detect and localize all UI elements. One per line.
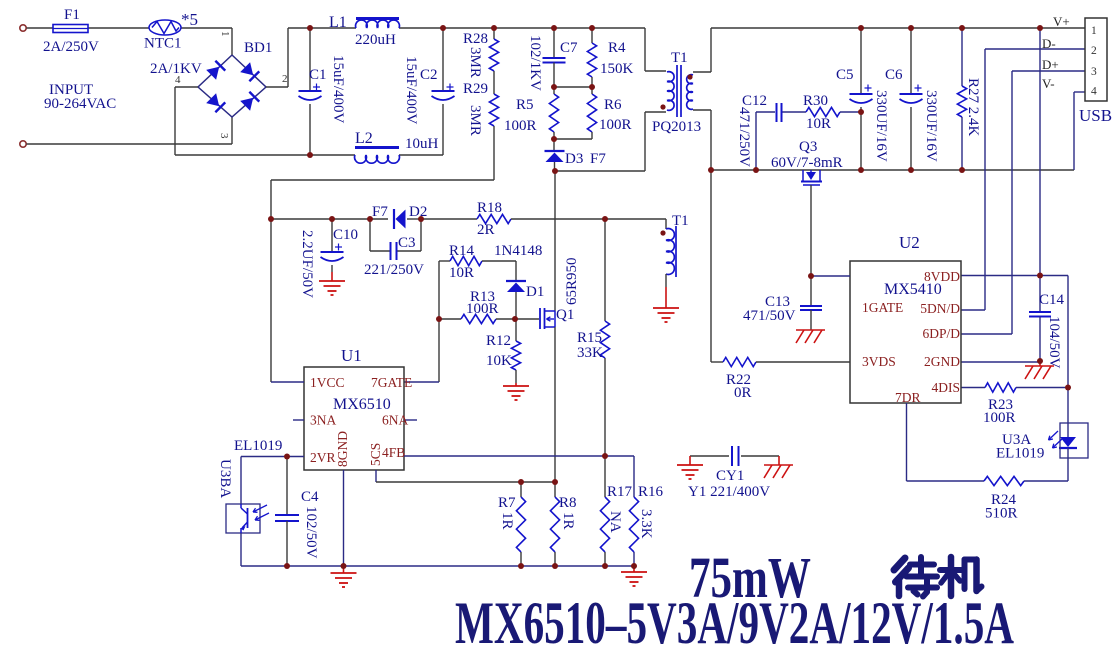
svg-text:104/50V: 104/50V bbox=[1046, 316, 1062, 369]
svg-text:33K: 33K bbox=[577, 345, 603, 361]
svg-text:8VDD: 8VDD bbox=[924, 269, 960, 284]
svg-text:3MR: 3MR bbox=[467, 47, 483, 78]
svg-text:U1: U1 bbox=[341, 346, 362, 365]
svg-text:C6: C6 bbox=[885, 67, 903, 83]
svg-text:6NA: 6NA bbox=[382, 413, 408, 428]
svg-text:R5: R5 bbox=[516, 97, 534, 113]
svg-text:Y1 221/400V: Y1 221/400V bbox=[688, 484, 770, 500]
svg-text:100R: 100R bbox=[983, 410, 1016, 426]
svg-text:D-: D- bbox=[1042, 36, 1056, 51]
svg-text:D+: D+ bbox=[1042, 57, 1059, 72]
svg-text:EL1019: EL1019 bbox=[996, 446, 1044, 462]
svg-text:R7: R7 bbox=[498, 495, 516, 511]
svg-text:3.3K: 3.3K bbox=[638, 509, 654, 539]
svg-text:1: 1 bbox=[1091, 25, 1097, 37]
svg-text:0R: 0R bbox=[734, 385, 752, 401]
svg-text:BD1: BD1 bbox=[244, 40, 272, 56]
svg-text:102/50V: 102/50V bbox=[303, 506, 319, 559]
svg-text:*5: *5 bbox=[181, 10, 198, 29]
svg-text:2: 2 bbox=[1091, 45, 1097, 57]
svg-text:221/250V: 221/250V bbox=[364, 262, 424, 278]
svg-text:1R: 1R bbox=[499, 512, 515, 530]
svg-text:Q3: Q3 bbox=[799, 139, 817, 155]
svg-text:4DIS: 4DIS bbox=[931, 380, 960, 395]
svg-text:T1: T1 bbox=[671, 50, 688, 66]
svg-text:R30: R30 bbox=[803, 93, 828, 109]
svg-text:1N4148: 1N4148 bbox=[494, 243, 542, 259]
svg-text:102/1KV: 102/1KV bbox=[527, 35, 543, 91]
svg-text:R8: R8 bbox=[559, 495, 577, 511]
svg-text:L1: L1 bbox=[329, 14, 347, 31]
svg-text:R14: R14 bbox=[449, 243, 475, 259]
svg-text:R15: R15 bbox=[577, 330, 602, 346]
svg-text:F7: F7 bbox=[590, 151, 606, 167]
svg-text:4: 4 bbox=[175, 74, 181, 86]
svg-text:100R: 100R bbox=[466, 301, 499, 317]
svg-text:R29: R29 bbox=[463, 81, 488, 97]
svg-text:5DN/D: 5DN/D bbox=[920, 301, 960, 316]
svg-text:471/250V: 471/250V bbox=[736, 107, 752, 167]
svg-text:90-264VAC: 90-264VAC bbox=[44, 96, 116, 112]
svg-text:1R: 1R bbox=[560, 512, 576, 530]
svg-text:MX6510: MX6510 bbox=[333, 396, 391, 413]
svg-text:C4: C4 bbox=[301, 489, 319, 505]
svg-text:100R: 100R bbox=[504, 118, 537, 134]
svg-text:10uH: 10uH bbox=[405, 136, 439, 152]
svg-text:5CS: 5CS bbox=[368, 443, 383, 466]
svg-text:3NA: 3NA bbox=[310, 413, 336, 428]
svg-text:D3: D3 bbox=[565, 151, 583, 167]
svg-text:6DP/D: 6DP/D bbox=[922, 326, 960, 341]
svg-text:15uF/400V: 15uF/400V bbox=[330, 55, 346, 124]
svg-text:8GND: 8GND bbox=[335, 431, 350, 467]
svg-text:R27 2.4K: R27 2.4K bbox=[965, 78, 981, 137]
svg-text:3: 3 bbox=[1091, 66, 1097, 78]
svg-text:MX6510–5V3A/9V2A/12V/1.5A: MX6510–5V3A/9V2A/12V/1.5A bbox=[455, 590, 1014, 656]
svg-text:PQ2013: PQ2013 bbox=[652, 119, 701, 135]
svg-text:15uF/400V: 15uF/400V bbox=[403, 56, 419, 125]
svg-text:2A/250V: 2A/250V bbox=[43, 39, 99, 55]
svg-text:F7: F7 bbox=[372, 204, 388, 220]
svg-text:U2: U2 bbox=[899, 233, 920, 252]
svg-text:3VDS: 3VDS bbox=[862, 354, 896, 369]
svg-text:2R: 2R bbox=[477, 222, 495, 238]
svg-text:L2: L2 bbox=[355, 130, 373, 147]
svg-text:R12: R12 bbox=[486, 333, 511, 349]
svg-text:USB: USB bbox=[1079, 106, 1112, 125]
svg-text:R18: R18 bbox=[477, 200, 502, 216]
svg-text:R28: R28 bbox=[463, 31, 488, 47]
svg-text:R16: R16 bbox=[638, 484, 664, 500]
svg-text:D2: D2 bbox=[409, 204, 427, 220]
svg-text:C1: C1 bbox=[309, 67, 327, 83]
svg-text:C14: C14 bbox=[1039, 292, 1065, 308]
svg-text:V+: V+ bbox=[1053, 14, 1070, 29]
svg-text:T1: T1 bbox=[672, 213, 689, 229]
svg-text:NA: NA bbox=[607, 511, 623, 533]
svg-text:7DR: 7DR bbox=[895, 390, 921, 405]
svg-text:10R: 10R bbox=[449, 265, 474, 281]
svg-text:EL1019: EL1019 bbox=[234, 438, 282, 454]
svg-text:471/50V: 471/50V bbox=[743, 308, 796, 324]
svg-text:2.2UF/50V: 2.2UF/50V bbox=[299, 230, 315, 298]
svg-text:R4: R4 bbox=[608, 40, 626, 56]
svg-text:2GND: 2GND bbox=[924, 354, 960, 369]
svg-text:C10: C10 bbox=[333, 227, 358, 243]
svg-text:F1: F1 bbox=[64, 7, 80, 23]
svg-text:2VR: 2VR bbox=[310, 450, 336, 465]
svg-text:C2: C2 bbox=[420, 67, 438, 83]
svg-text:C3: C3 bbox=[398, 235, 416, 251]
svg-text:1VCC: 1VCC bbox=[310, 375, 345, 390]
svg-text:4: 4 bbox=[1091, 86, 1097, 98]
svg-text:1: 1 bbox=[219, 31, 231, 37]
svg-text:510R: 510R bbox=[985, 506, 1018, 522]
svg-text:Q1: Q1 bbox=[556, 307, 574, 323]
svg-text:CY1: CY1 bbox=[716, 468, 744, 484]
svg-text:7GATE: 7GATE bbox=[371, 375, 412, 390]
svg-text:V-: V- bbox=[1042, 76, 1055, 91]
svg-text:3MR: 3MR bbox=[467, 105, 483, 136]
svg-text:330UF/16V: 330UF/16V bbox=[873, 90, 889, 162]
svg-text:60V/7-8mR: 60V/7-8mR bbox=[771, 155, 843, 171]
svg-text:4FB: 4FB bbox=[382, 445, 405, 460]
svg-text:150K: 150K bbox=[600, 61, 634, 77]
svg-text:1GATE: 1GATE bbox=[862, 300, 903, 315]
svg-text:330UF/16V: 330UF/16V bbox=[923, 90, 939, 162]
svg-text:D1: D1 bbox=[526, 284, 544, 300]
svg-text:NTC1: NTC1 bbox=[144, 36, 182, 52]
svg-text:U3BA: U3BA bbox=[217, 459, 233, 498]
svg-text:3: 3 bbox=[218, 133, 230, 139]
svg-text:C5: C5 bbox=[836, 67, 854, 83]
svg-text:R6: R6 bbox=[604, 97, 622, 113]
svg-text:10R: 10R bbox=[806, 116, 831, 132]
svg-text:100R: 100R bbox=[599, 117, 632, 133]
svg-text:65R950: 65R950 bbox=[564, 257, 580, 305]
svg-text:R17: R17 bbox=[607, 484, 633, 500]
svg-text:2: 2 bbox=[282, 73, 288, 85]
svg-text:220uH: 220uH bbox=[355, 32, 396, 48]
svg-text:C7: C7 bbox=[560, 40, 578, 56]
svg-text:10K: 10K bbox=[486, 353, 512, 369]
